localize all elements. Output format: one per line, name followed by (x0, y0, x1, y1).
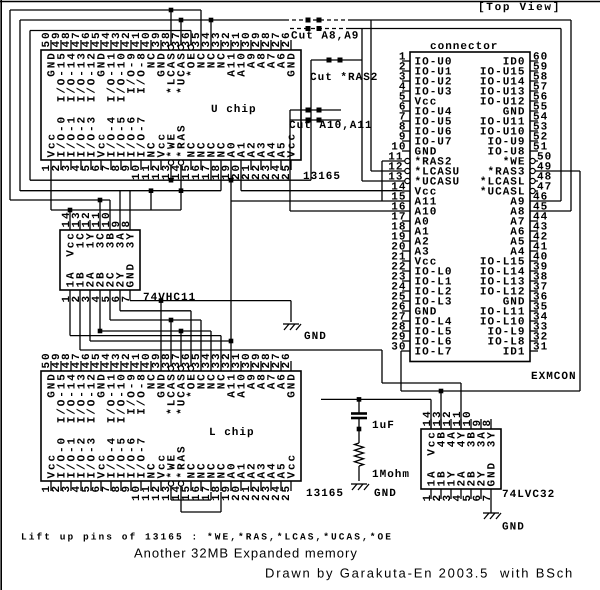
net A0 row : horizontal to connector pin 15 joining VHC11 pin 3 line (231, 200, 402, 202)
net 74VHC11 pin5 to L chip pins 38,35 (110, 300, 201, 362)
L chip 13165 DRAM body (41, 371, 301, 481)
svg-text:EXMCON: EXMCON (531, 371, 577, 383)
svg-text:GND: GND (126, 262, 138, 288)
IC 74VHC11 triple AND gate (60, 230, 140, 290)
svg-text:Lift up pins of 13165 : *WE,*R: Lift up pins of 13165 : *WE,*RAS,*LCAS,*… (21, 532, 393, 543)
svg-text:U chip: U chip (211, 104, 257, 116)
net 74VHC11 pin4 to L chip pins 37,34 (98, 300, 211, 362)
svg-text:3Y: 3Y (126, 231, 138, 248)
svg-text:Another 32MB Expanded memory: Another 32MB Expanded memory (134, 546, 358, 561)
svg-text:GND: GND (287, 51, 299, 77)
svg-text:Vcc: Vcc (287, 132, 299, 158)
ground symbol near 74VHC11 (283, 324, 301, 330)
page border: top edge line (0, 1, 600, 3)
L chip top pins (50..26) stubs and circles (51, 361, 291, 371)
svg-text:connector: connector (430, 41, 498, 53)
svg-text:25: 25 (281, 484, 293, 501)
svg-text:ID1: ID1 (503, 347, 526, 359)
L chip top pin labels (47, 372, 299, 423)
IC 74LVC32 quad OR gate (421, 429, 501, 489)
svg-text:1uF: 1uF (372, 420, 395, 432)
svg-text:13165: 13165 (303, 171, 341, 183)
svg-text:GND: GND (374, 488, 397, 500)
ground symbol below 74LVC32 (483, 513, 501, 519)
net Vcc : U pin1 to 74VHC11 pin 14 (51, 170, 181, 220)
L chip bottom pins (1..25) stubs and circles (51, 481, 291, 491)
svg-text:Vcc: Vcc (287, 453, 299, 479)
net 74VHC11 pin1 to L chip pin 33 (70, 300, 221, 362)
net *LCAS : U pin38 to U pin35, around left side to 74VHC11 pins 10,11 (10, 8, 201, 220)
svg-text:1Mohm: 1Mohm (372, 469, 410, 481)
net *LCASU : connector pin 12 wire (371, 20, 402, 171)
connector right pin stubs and circles (60-31) (530, 61, 538, 351)
net A9 cut wire : dashed cut to connector pin 46 (290, 26, 561, 201)
L chip lifted pin loops (*WE to pin17, *RAS to pin18) (171, 486, 221, 512)
connector right pin numbers (533, 52, 552, 354)
svg-text:30: 30 (391, 342, 406, 354)
net *WE : U pin13 looped to U pin17 on *OE row (169, 165, 211, 182)
net *RAS : U pin14 down across row y191 to connector pin 14, loop to U pin18 (20, 165, 402, 220)
net A11 cut wire joining connector pin 15 line (290, 118, 341, 123)
svg-text:GND: GND (487, 461, 499, 487)
net *UCASU : connector pin 13 wire (362, 29, 402, 182)
U chip bottom pins (1..25) stubs and circles (51, 160, 291, 170)
svg-text:74VHC11: 74VHC11 (143, 292, 196, 304)
svg-text:26: 26 (281, 351, 293, 368)
svg-text:31: 31 (533, 342, 548, 354)
svg-text:IO-L7: IO-L7 (415, 347, 453, 359)
net GND : 74LVC32 pin 7 to ground (490, 499, 492, 513)
L chip top pin numbers (41, 351, 293, 368)
net 74VHC11 pin2 long wire to *RAS2 vertical (80, 300, 382, 350)
svg-text:GND: GND (287, 372, 299, 398)
svg-text:Drawn by Garakuta-En 2003.5 w: Drawn by Garakuta-En 2003.5 with BSch (265, 566, 574, 581)
connector left pin labels (415, 57, 461, 359)
svg-text:Cut A10,A11: Cut A10,A11 (289, 120, 373, 132)
svg-text:74LVC32: 74LVC32 (502, 489, 555, 501)
U chip bottom pin labels (47, 115, 299, 158)
connector right pin labels (480, 57, 526, 359)
connector left pin stubs and circles (1-30) (402, 61, 410, 351)
net 74VHC11 pin6 to L chip pin 36 (120, 300, 191, 361)
capacitor C1 1uF (351, 399, 367, 431)
net 74VHC11 pin3 to L chip pin 32 (90, 300, 233, 362)
net *RAS2 : connector pin 11 down to 74LVC32 pin 11 (382, 161, 461, 429)
svg-text:Cut A8,A9: Cut A8,A9 (291, 31, 359, 43)
svg-text:Cut *RAS2: Cut *RAS2 (310, 72, 378, 84)
svg-text:7: 7 (482, 493, 494, 502)
page border: left edge line (0, 0, 2, 590)
net *OE : U pin36 around left side to cut *RAS2 wire (30, 31, 311, 342)
net *RAS2 cut wire with cut marks (311, 58, 362, 63)
svg-text:25: 25 (281, 163, 293, 180)
U chip 13165 DRAM body (41, 50, 301, 160)
svg-text:GND: GND (502, 522, 525, 534)
net *UCAS / A8 : U pin37, U pin34, cut A8 wire to connector pin 45, VHC11 pin 9 (20, 18, 571, 212)
L chip bottom pin labels (47, 436, 299, 479)
ground symbol below resistor (351, 484, 369, 490)
L chip bottom pin numbers (41, 484, 293, 501)
svg-text:[Top View]: [Top View] (478, 2, 561, 14)
resistor R1 1Mohm (355, 429, 364, 481)
U chip top pin labels (47, 51, 299, 102)
net Vcc decoupling : capacitor rail to 74LVC32 pin 14 (321, 397, 431, 429)
svg-text:8: 8 (482, 418, 494, 427)
U chip bottom pin numbers (41, 163, 293, 180)
net GND : 74VHC11 pin7 to ground symbol and L chip pin 39 (130, 298, 291, 362)
svg-text:13165: 13165 (306, 488, 344, 500)
net *RAS3 : connector pin 49 down right side to 74LVC32 pin 13 and connector pin 30 (401, 171, 580, 429)
U chip top pin numbers (41, 30, 293, 47)
U chip top pins (50..26) stubs and circles (51, 40, 291, 50)
svg-text:8: 8 (121, 219, 133, 228)
svg-text:3Y: 3Y (487, 430, 499, 447)
svg-text:GND: GND (304, 331, 327, 343)
svg-text:L chip: L chip (209, 427, 255, 439)
connector left pin numbers (388, 52, 406, 354)
net A10 cut wire to connector pin 16 (290, 108, 402, 212)
connector EXMCON body (410, 52, 530, 362)
